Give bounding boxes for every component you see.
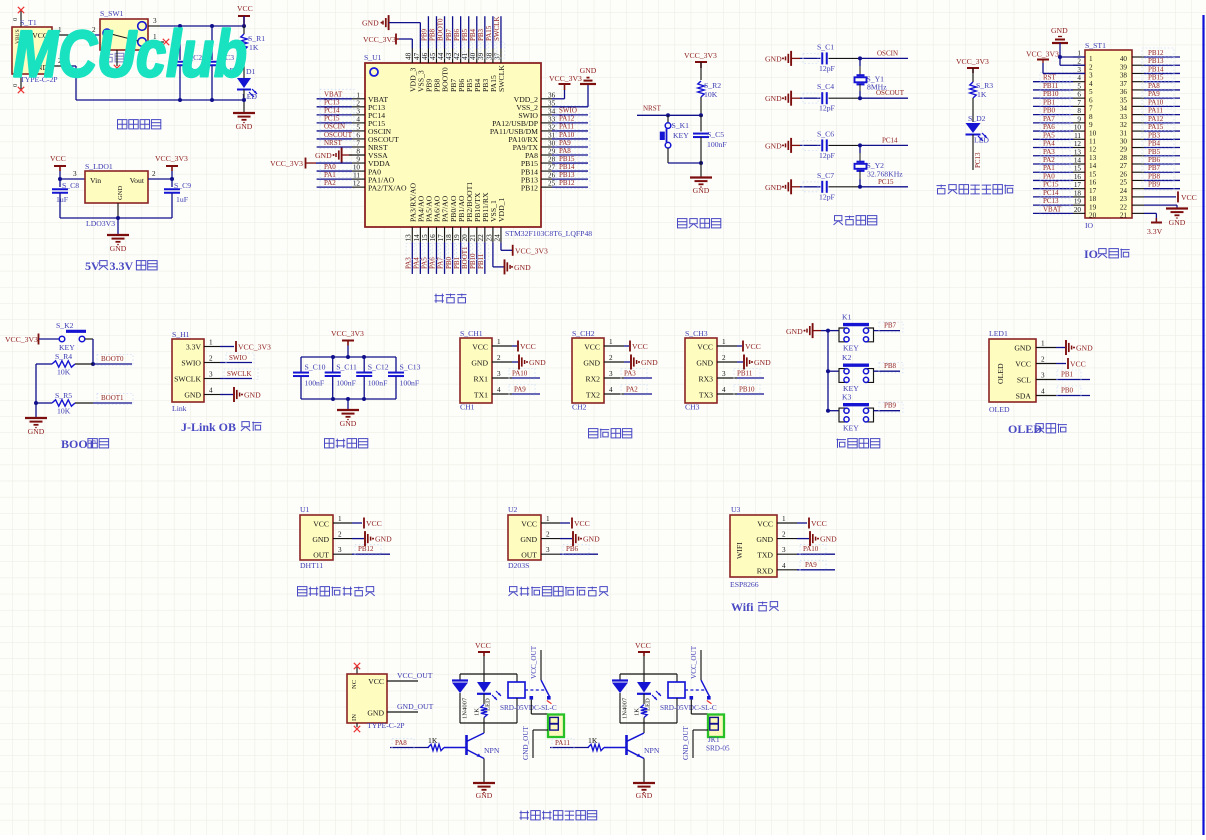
U1 top pin 39 PB3 (477, 49, 490, 93)
ground GND (S_C6 row) (765, 138, 800, 153)
ground GND (relay) (633, 783, 655, 800)
svg-text:SRD-05VDC-SL-C: SRD-05VDC-SL-C (660, 704, 717, 712)
crystal S_Y2 32.768KHz (855, 145, 904, 186)
svg-text:ESP8266: ESP8266 (730, 580, 759, 589)
svg-text:PB3: PB3 (1148, 131, 1161, 139)
svg-text:47: 47 (413, 52, 421, 60)
wire/net PA1 (317, 170, 354, 181)
svg-text:VCC_3V3: VCC_3V3 (270, 159, 303, 168)
svg-text:19: 19 (453, 234, 461, 242)
wire/net PB7 (874, 322, 904, 333)
capacitor S_C6 12pF (800, 129, 860, 160)
svg-text:PB0: PB0 (1043, 107, 1056, 115)
svg-text:KEY: KEY (673, 131, 689, 140)
title 主芯片 (435, 294, 437, 303)
power VCC (CH1) (512, 341, 536, 352)
svg-text:3: 3 (1077, 66, 1081, 74)
svg-text:38: 38 (1120, 72, 1128, 80)
wire/net PB4 (1142, 139, 1180, 150)
svg-text:10K: 10K (57, 407, 71, 416)
key S_K1 (660, 115, 703, 165)
wire/net PA12 (1142, 114, 1180, 125)
U1 pin 2 (333, 531, 352, 539)
svg-text:2: 2 (1089, 63, 1093, 71)
regulator S_LDO1 LDO3V3 (85, 162, 148, 228)
svg-text:U2: U2 (508, 505, 518, 514)
svg-text:PB12: PB12 (521, 183, 538, 192)
svg-text:VCC: VCC (472, 343, 488, 352)
U2 pin 2 (541, 531, 560, 539)
svg-text:VCC: VCC (745, 342, 761, 351)
svg-text:3: 3 (609, 370, 613, 378)
S_ST1 left pin 3 (1073, 66, 1093, 80)
svg-text:OSCIN: OSCIN (324, 123, 345, 131)
ground GND (header pin22) (1144, 205, 1188, 227)
svg-text:TYPE-C-2P: TYPE-C-2P (367, 721, 405, 730)
title 温湿度检测模块 (298, 587, 307, 596)
IC U1 STM32F103C8T6 body (364, 53, 592, 238)
connector S_CH3 (685, 329, 717, 412)
svg-text:1K: 1K (634, 708, 641, 716)
wire/net GND_OUT (source) (387, 702, 434, 712)
svg-text:10K: 10K (57, 368, 71, 377)
svg-text:BOOT0: BOOT0 (437, 18, 445, 41)
S_CH1 pin 2 (492, 354, 512, 362)
key K2 (828, 353, 874, 393)
wire relay top rail (620, 673, 677, 675)
ground GND at VSS_3 pin47 (362, 15, 420, 48)
svg-text:24: 24 (493, 234, 501, 242)
svg-text:U3: U3 (731, 505, 741, 514)
ground GND at VSS_1 pin23 (493, 242, 531, 274)
svg-text:S_CH2: S_CH2 (572, 329, 595, 338)
svg-text:2: 2 (152, 170, 156, 178)
svg-text:PB7: PB7 (884, 322, 897, 330)
wire top rail VCC (148, 24, 246, 28)
svg-text:12pF: 12pF (819, 104, 835, 113)
S_ST1 right pin 38 (1120, 72, 1144, 80)
wire/net PB3 (1142, 130, 1180, 141)
svg-text:18: 18 (445, 234, 453, 242)
svg-text:PB10: PB10 (739, 386, 755, 394)
svg-text:17: 17 (437, 234, 445, 242)
S_ST1 left pin 5 (1073, 82, 1093, 96)
svg-text:25: 25 (548, 180, 556, 188)
svg-text:2: 2 (609, 354, 613, 362)
svg-text:PB6: PB6 (1148, 156, 1161, 164)
svg-text:RXD: RXD (757, 566, 774, 575)
ground GND (boot) (25, 403, 47, 436)
wire/net PB14 (552, 162, 590, 173)
svg-text:SRD-05VDC-SL-C: SRD-05VDC-SL-C (500, 704, 557, 712)
svg-text:GND: GND (514, 263, 531, 272)
U1 top pin 48 VDD_3 (405, 49, 418, 93)
S_ST1 right pin 35 (1120, 96, 1144, 104)
wire/net PB7 (1142, 163, 1180, 174)
power flag VCC_3V3 (reset) (684, 51, 717, 80)
svg-text:9: 9 (356, 156, 360, 164)
connector TYPE-C-2P (relay power) (347, 663, 405, 732)
svg-text:PC15: PC15 (878, 178, 894, 186)
connector S_H1 J-Link (172, 330, 204, 413)
U1 bottom pin 14 PA4/AO (413, 195, 426, 242)
svg-text:1: 1 (356, 91, 360, 99)
svg-text:PA10: PA10 (1148, 98, 1164, 106)
svg-text:30: 30 (1120, 138, 1128, 146)
svg-text:PA2: PA2 (626, 386, 638, 394)
U1 right pin 33 PA12/USB/DP (492, 115, 555, 128)
svg-text:2: 2 (209, 355, 213, 363)
svg-text:29: 29 (1120, 146, 1128, 154)
svg-text:SWCLK: SWCLK (493, 16, 501, 41)
svg-text:12: 12 (1074, 140, 1082, 148)
svg-text:PB9: PB9 (1148, 181, 1161, 189)
svg-text:PC15: PC15 (1043, 181, 1059, 189)
svg-text:U1: U1 (300, 505, 310, 514)
S_ST1 left pin 14 (1073, 156, 1097, 170)
svg-text:PB10: PB10 (1043, 90, 1059, 98)
svg-text:S_CH3: S_CH3 (685, 329, 708, 338)
U1 bottom pin 18 PB0/AO (445, 195, 458, 242)
power VCC (CH3) (737, 341, 761, 352)
U1 pin 3 (333, 546, 352, 554)
svg-text:12pF: 12pF (819, 151, 835, 160)
S_CH1 pin 1 (492, 338, 512, 346)
svg-text:SDA: SDA (1016, 392, 1032, 401)
svg-text:GND: GND (641, 358, 658, 367)
ground GND (header top) (1051, 26, 1068, 65)
svg-text:8: 8 (1077, 107, 1081, 115)
U1 top pin 45 PB8 (429, 49, 442, 93)
transistor NPN (627, 723, 660, 783)
resistor S_R4 10K (36, 352, 93, 377)
svg-text:18: 18 (1074, 189, 1082, 197)
svg-text:1: 1 (782, 515, 786, 523)
wire/net GND_OUT (relay) (682, 725, 708, 760)
svg-text:CH2: CH2 (572, 403, 587, 412)
S_ST1 right pin 36 (1120, 88, 1144, 96)
wire/net PA2 (317, 178, 354, 189)
svg-text:7: 7 (1077, 99, 1081, 107)
U1 left pin 7 NRST (352, 139, 388, 152)
U1 top pin 43 PB7 (445, 49, 458, 93)
S_ST1 right pin 34 (1120, 105, 1144, 113)
wire/net PA10 (1142, 97, 1180, 108)
svg-text:1K: 1K (428, 736, 438, 745)
wire/net PA15 (485, 16, 497, 58)
svg-text:21: 21 (1120, 212, 1128, 220)
svg-text:23: 23 (485, 234, 493, 242)
wire/net PA11 (relay input) (550, 739, 589, 750)
ground GND (jlink) (220, 387, 261, 402)
svg-text:VCC_3V3: VCC_3V3 (956, 57, 989, 66)
svg-text:BOOT: BOOT (61, 437, 96, 451)
svg-text:PB7: PB7 (445, 28, 453, 41)
svg-text:8MHz: 8MHz (867, 83, 887, 92)
wire/net BOOT0 (437, 16, 449, 58)
capacitor S_C8 1uF (52, 179, 79, 218)
wire header pins 1-2 (1058, 55, 1085, 65)
svg-text:1uF: 1uF (56, 195, 68, 204)
svg-text:100nF: 100nF (368, 379, 388, 388)
svg-text:LDO3V3: LDO3V3 (86, 219, 115, 228)
wire/net BOOT1 (93, 394, 133, 405)
svg-text:BOOT1: BOOT1 (101, 394, 124, 402)
svg-text:S_R2: S_R2 (704, 81, 721, 90)
U1 bottom pin 23 VSS_1 (485, 200, 498, 242)
resistor 1K (base) (428, 736, 467, 751)
S_ST1 left pin 15 (1073, 165, 1097, 179)
svg-text:PB3: PB3 (477, 28, 485, 41)
svg-text:3: 3 (209, 371, 213, 379)
ground GND (relay) (473, 783, 495, 800)
svg-text:VCC_3V3: VCC_3V3 (515, 247, 548, 256)
ground GND (CH2) (624, 355, 658, 370)
svg-text:4: 4 (1041, 388, 1045, 396)
S_ST1 left pin 6 (1073, 91, 1093, 105)
U2 pin 3 (541, 546, 560, 554)
wire/net PB10 (734, 385, 764, 396)
ground GND (CH3) (737, 355, 771, 370)
net NRST (637, 105, 703, 118)
wire relay top rail (460, 673, 517, 675)
svg-text:20: 20 (1089, 212, 1097, 220)
title 晶振电路 (835, 216, 842, 221)
svg-text:GND: GND (367, 709, 384, 718)
S_ST1 right pin 30 (1120, 138, 1144, 146)
wire/net PB5 (1142, 147, 1180, 158)
LED S_D2 (966, 114, 990, 145)
svg-text:1: 1 (546, 515, 550, 523)
svg-text:SWCLK: SWCLK (497, 65, 506, 92)
svg-text:GND: GND (362, 19, 379, 28)
svg-text:PA7: PA7 (1043, 115, 1055, 123)
svg-text:19: 19 (1074, 198, 1082, 206)
power flag VCC (LDO in) (50, 154, 66, 179)
svg-text:10: 10 (1089, 129, 1097, 137)
display LED1 OLED (989, 329, 1036, 414)
wire keys bus (826, 329, 830, 413)
resistor S_R1 1K (241, 26, 265, 78)
diode 1N4007 (452, 674, 469, 723)
module U2 D203S (508, 505, 541, 570)
svg-text:28: 28 (548, 156, 556, 164)
svg-text:PB8: PB8 (429, 28, 437, 41)
svg-text:48: 48 (405, 52, 413, 60)
svg-text:3: 3 (722, 370, 726, 378)
U1 left pin 10 PA0 (352, 164, 381, 177)
svg-text:37: 37 (1120, 80, 1128, 88)
svg-text:PA11: PA11 (555, 739, 571, 747)
capacitor S_C9 1uF (164, 179, 191, 218)
wire/net PC15 (317, 113, 354, 124)
svg-text:VCC: VCC (521, 520, 537, 529)
svg-text:VCC: VCC (237, 4, 253, 13)
key K1 (828, 313, 874, 353)
S_H1 pin 1 (204, 339, 220, 347)
svg-text:35: 35 (1120, 96, 1128, 104)
svg-text:PB1: PB1 (453, 256, 461, 269)
S_ST1 right pin 37 (1120, 80, 1144, 88)
U1 right pin 34 SWIO (518, 107, 555, 120)
S_ST1 left pin 17 (1073, 181, 1097, 195)
svg-text:1N4007: 1N4007 (462, 697, 469, 719)
U1 pin 1 (333, 515, 352, 523)
svg-text:GND: GND (110, 244, 127, 253)
svg-text:1: 1 (497, 338, 501, 346)
ground GND at VSS_2 pin35 (552, 66, 597, 107)
wire/net PA4 (413, 242, 425, 274)
svg-text:9: 9 (1077, 115, 1081, 123)
wire/net PC13 (317, 97, 354, 108)
svg-text:1: 1 (209, 339, 213, 347)
key K3 (828, 393, 874, 433)
svg-text:8: 8 (1089, 113, 1093, 121)
svg-text:14: 14 (413, 234, 421, 242)
svg-text:VCC: VCC (1181, 193, 1197, 202)
svg-text:7: 7 (1089, 105, 1093, 113)
svg-text:16: 16 (1074, 173, 1082, 181)
svg-text:VCC: VCC (584, 343, 600, 352)
svg-text:GND: GND (765, 54, 782, 63)
resistor 1K (relay led) (634, 694, 648, 723)
svg-text:10: 10 (1074, 124, 1082, 132)
U1 left pin 1 VBAT (352, 91, 388, 104)
key S_K2 (56, 321, 95, 366)
relay coil SRD-05VDC-SL-C (500, 674, 557, 723)
wire/net PA2 (1033, 155, 1073, 166)
svg-text:9: 9 (1089, 121, 1093, 129)
svg-text:11: 11 (1089, 138, 1096, 146)
svg-text:PA2: PA2 (324, 179, 336, 187)
svg-text:S_C9: S_C9 (174, 181, 191, 190)
wire/net SWCLK (493, 16, 505, 58)
wire/net PC15 (858, 178, 908, 189)
wire/net PA7 (1033, 114, 1073, 125)
resistor 1K (base) (588, 736, 627, 751)
S_CH2 pin 4 (604, 386, 624, 394)
svg-text:VCC: VCC (574, 519, 590, 528)
svg-text:PA8: PA8 (395, 739, 407, 747)
LED1 pin 4 (1036, 388, 1056, 396)
wire/net PA5 (1033, 130, 1073, 141)
svg-text:40: 40 (1120, 55, 1128, 63)
ground GND (U1) (352, 531, 392, 546)
svg-text:PB4: PB4 (1148, 140, 1161, 148)
wire/net PB11 (1033, 81, 1073, 92)
U1 bottom pin 15 PA5/AO (421, 195, 434, 242)
svg-text:GND: GND (580, 66, 597, 75)
svg-text:13: 13 (405, 234, 413, 242)
power flag VCC (relay) (635, 641, 651, 674)
svg-text:GND: GND (117, 185, 124, 200)
power VCC_3V3 (header pin3) (1026, 50, 1085, 74)
svg-text:VCC: VCC (520, 342, 536, 351)
designator JK1 SRD-05 (706, 736, 730, 753)
U1 right pin 35 VSS_2 (516, 99, 555, 112)
svg-text:GND: GND (754, 358, 771, 367)
svg-text:PA3: PA3 (624, 370, 636, 378)
svg-text:1K: 1K (249, 43, 259, 52)
crystal S_Y1 8MHz (855, 58, 888, 98)
label 开关 (105, 53, 114, 55)
svg-text:WIFI: WIFI (735, 542, 744, 559)
svg-text:36: 36 (1120, 88, 1128, 96)
svg-text:RST: RST (1043, 74, 1057, 82)
svg-text:S_R5: S_R5 (55, 391, 72, 400)
power VCC (header pin23) (1144, 191, 1197, 202)
svg-text:13: 13 (1089, 154, 1097, 162)
svg-text:5: 5 (1089, 88, 1093, 96)
svg-text:32: 32 (548, 123, 556, 131)
svg-text:5: 5 (356, 123, 360, 131)
svg-text:PC13: PC13 (1043, 197, 1059, 205)
wire/net PA8 (relay input) (390, 739, 429, 750)
svg-text:39: 39 (1120, 63, 1128, 71)
wire/net OSCOUT (317, 129, 354, 140)
wire/net PB1 (453, 242, 465, 274)
wire/net BOOT0 (93, 355, 133, 366)
capacitor S_C10 100nF (293, 357, 326, 399)
wire/net PB10 (469, 242, 481, 274)
wire/net PA10 (552, 129, 590, 140)
svg-text:31: 31 (548, 131, 556, 139)
svg-text:GND: GND (471, 359, 488, 368)
svg-text:PB0: PB0 (445, 256, 453, 269)
svg-text:GND: GND (529, 358, 546, 367)
wire to socket pin1 (531, 700, 548, 714)
wire/net PA9 (U3) (797, 560, 835, 571)
LED1 pin 3 (1036, 372, 1056, 380)
U1 right pin 32 PA11/USB/DM (490, 123, 556, 136)
svg-text:GND: GND (1051, 26, 1068, 35)
svg-text:PB5: PB5 (1148, 148, 1161, 156)
svg-text:GND: GND (765, 94, 782, 103)
svg-text:GND: GND (765, 183, 782, 192)
svg-text:TX2: TX2 (586, 391, 600, 400)
svg-text:PB1: PB1 (1043, 98, 1056, 106)
title 滤波电路 (325, 439, 334, 448)
svg-text:D1: D1 (246, 67, 256, 76)
svg-text:SCL: SCL (1017, 376, 1031, 385)
svg-text:S_H1: S_H1 (172, 330, 190, 339)
svg-text:GND: GND (236, 122, 253, 131)
U1 right pin 28 PB15 (521, 156, 556, 169)
svg-text:1K: 1K (977, 90, 987, 99)
wire/net PA11 (1142, 106, 1180, 117)
svg-text:GND: GND (693, 186, 710, 195)
svg-text:10K: 10K (704, 90, 718, 99)
svg-text:PA1: PA1 (1043, 164, 1055, 172)
svg-text:2: 2 (338, 531, 342, 539)
svg-text:PA6: PA6 (1043, 123, 1055, 131)
S_CH2 pin 2 (604, 354, 624, 362)
U1 bottom pin 19 PB1/AO (453, 195, 466, 242)
wire/net PB8 (874, 362, 904, 373)
S_ST1 right pin 33 (1120, 113, 1144, 121)
svg-text:PA8: PA8 (1148, 82, 1160, 90)
wire/net PB12 (U1) (352, 545, 390, 556)
svg-text:12pF: 12pF (819, 192, 835, 201)
U1 top pin 42 PB6 (453, 49, 466, 93)
svg-text:PB12: PB12 (1148, 49, 1164, 57)
svg-text:4: 4 (1089, 80, 1093, 88)
S_ST1 right pin 29 (1120, 146, 1144, 154)
U3 pin 2 (777, 531, 797, 539)
power VCC_3V3 at VDD_1 pin24 (501, 242, 548, 255)
svg-text:GND: GND (184, 391, 201, 400)
svg-text:TXD: TXD (757, 551, 773, 560)
